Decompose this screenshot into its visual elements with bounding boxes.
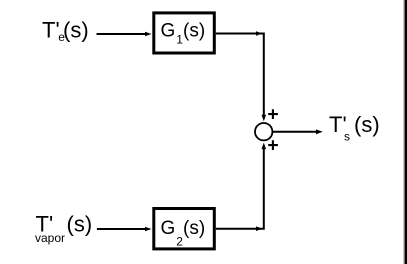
arrowhead down into summing junction <box>262 115 267 122</box>
wire G1 output elbow to junction <box>216 34 264 119</box>
wire input to G1 <box>97 33 147 35</box>
arrowhead output <box>316 129 323 134</box>
svg-text:(s): (s) <box>183 21 205 42</box>
svg-text:(s): (s) <box>67 212 93 237</box>
block G2 <box>154 209 215 249</box>
label T's(s) output node <box>329 112 380 143</box>
arrowhead into G1 <box>145 32 152 37</box>
svg-text:T': T' <box>42 18 60 43</box>
svg-text:s: s <box>344 129 350 143</box>
svg-text:vapor: vapor <box>35 231 65 245</box>
block G1 <box>154 13 215 53</box>
svg-text:(s): (s) <box>183 218 205 239</box>
window edge line right <box>403 0 404 264</box>
summing junction circle <box>255 123 272 140</box>
wire junction to output <box>272 131 316 133</box>
arrowhead at bottom elbow corner <box>256 226 263 231</box>
wire G2 output elbow up to junction <box>216 149 264 229</box>
plus sign top <box>268 109 278 119</box>
plus sign bottom <box>268 140 278 150</box>
label G2(s) <box>161 218 206 249</box>
svg-text:G: G <box>161 218 176 239</box>
wire input to G2 <box>97 228 146 230</box>
arrowhead up into summing junction <box>262 143 267 150</box>
label T'e(s) input node <box>42 18 89 44</box>
arrowhead at top elbow corner <box>256 31 263 36</box>
arrowhead into G2 <box>145 227 152 232</box>
label T'vapor(s) input node <box>35 212 92 245</box>
svg-text:G: G <box>161 21 176 42</box>
svg-text:(s): (s) <box>63 18 89 43</box>
svg-text:(s): (s) <box>354 112 380 137</box>
label G1(s) <box>161 21 206 47</box>
